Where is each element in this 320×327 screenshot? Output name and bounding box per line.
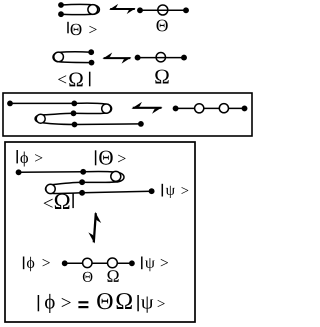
node: row2 right dot [181, 55, 187, 61]
node: row2 Omega circle (transparent) [156, 53, 165, 62]
label |Theta > : ket bracket [118, 155, 125, 163]
node: Omega matrix circle [54, 52, 64, 62]
wire: row1 straight [140, 9, 186, 11]
label |phi > chain : ket bracket [43, 259, 50, 266]
label |Theta > : Theta [99, 151, 112, 165]
wire: bottom free wire to psi [82, 191, 152, 193]
equation : equals [78, 301, 88, 303]
node: Omega matrix circle [36, 114, 45, 123]
node: chain Theta circle [83, 258, 92, 267]
label |Theta > : Theta [71, 24, 82, 35]
node: junction dot middle [79, 179, 85, 185]
equation : phi [45, 294, 55, 313]
label |Theta > : pipe [67, 22, 69, 34]
node: junction dot middle [71, 110, 77, 116]
label <Omega| : Omega [69, 72, 82, 86]
label Omega [155, 70, 168, 84]
wire: Theta stadium loop [61, 4, 99, 14]
node: chain left dot [173, 105, 179, 111]
wire: long top wire [10, 102, 74, 104]
wire: long top wire [19, 171, 84, 174]
node: junction dot top [71, 101, 77, 107]
node: Theta matrix circle [88, 5, 98, 15]
label |Theta > : pipe [95, 150, 97, 165]
wire: chain straight [65, 262, 132, 264]
arrow: row1 double harpoon [109, 4, 136, 14]
equation : ket bracket 1 [62, 298, 71, 307]
arrow: middle box double harpoon [131, 102, 162, 114]
node: chain Omega circle [219, 104, 228, 113]
label |psi > chain : ket bracket [161, 259, 168, 266]
node: row1 left dot [137, 7, 143, 13]
equation : pipe 1 [37, 295, 39, 311]
node: phi dot [16, 169, 22, 175]
arrow: row2 double harpoon [102, 53, 131, 64]
equation : Theta [97, 293, 112, 309]
node: row2 left dot [135, 55, 141, 61]
node: chain right dot [129, 260, 135, 266]
equation : Omega [117, 293, 132, 309]
node: row2 bottom-right dot [89, 60, 95, 66]
node: row2 top-right dot [88, 49, 94, 55]
node: bottom wire end dot [138, 121, 144, 127]
label |phi > : pipe [16, 150, 18, 163]
label Theta (under chain) [83, 272, 93, 282]
wire: row2 straight [138, 57, 184, 59]
box: middle frame [3, 93, 252, 136]
node: Omega matrix circle [46, 184, 55, 193]
wire: Omega stadium loop [46, 182, 83, 193]
label |psi > : ket bracket [182, 187, 189, 194]
label <Omega| : pipe [72, 193, 74, 208]
node: far left dot [7, 101, 13, 107]
box: bottom frame [5, 142, 195, 322]
node: junction dot top [80, 169, 86, 175]
label |phi > : ket bracket [35, 154, 42, 161]
node: psi dot [149, 188, 155, 194]
label |psi > chain : pipe [141, 257, 143, 270]
wire: Theta stadium loop [82, 171, 124, 182]
node: bottom-left dot [58, 11, 64, 17]
arrow: vertical double harpoon [88, 211, 102, 243]
node: chain left dot [62, 260, 68, 266]
node: row1 Theta circle (transparent) [158, 5, 168, 15]
wire: Omega stadium loop [35, 113, 74, 124]
label |phi > chain : pipe [23, 257, 25, 270]
label <Omega| : bra bracket [44, 199, 53, 208]
label |psi > : pipe [161, 184, 163, 197]
label Theta [157, 20, 168, 32]
node: junction dot bottom [72, 122, 78, 128]
wire: bottom free wire [75, 123, 141, 126]
wire: Theta stadium loop [74, 103, 112, 113]
label <Omega| : Omega [55, 194, 70, 209]
label Omega (under chain) [107, 270, 118, 282]
equation : ket bracket 2 [158, 300, 165, 307]
node: chain Theta circle [195, 104, 204, 113]
label |psi > chain : psi [145, 258, 155, 271]
label |psi > : psi [166, 186, 175, 198]
label <Omega| : pipe [89, 72, 91, 87]
wire: Omega stadium loop [53, 52, 92, 63]
label <Omega| : bra bracket [58, 75, 66, 83]
equation : pipe 2 [137, 295, 139, 311]
equation : psi [141, 296, 153, 312]
node: row1 right dot [183, 7, 189, 13]
node: chain Omega circle [108, 258, 118, 268]
wire: chain straight [176, 107, 245, 109]
node: Theta matrix circle [102, 104, 111, 113]
node: top-left dot [58, 2, 64, 8]
node: chain right dot [242, 105, 248, 111]
label |phi > chain : phi [27, 257, 34, 272]
label |Theta > : ket bracket [89, 26, 96, 33]
node: junction dot bottom [79, 190, 85, 196]
node: Theta matrix circle [111, 171, 121, 181]
label |phi > : phi [20, 152, 28, 167]
